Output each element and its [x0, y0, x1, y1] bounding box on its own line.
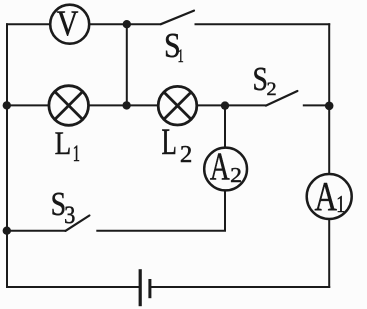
svg-text:L: L	[161, 121, 176, 162]
svg-text:1: 1	[73, 142, 80, 167]
svg-text:2: 2	[180, 141, 192, 168]
svg-text:1: 1	[336, 190, 345, 217]
svg-text:A: A	[314, 174, 336, 219]
svg-text:L: L	[55, 125, 72, 162]
svg-text:2: 2	[230, 163, 242, 186]
svg-text:A: A	[210, 146, 230, 189]
svg-text:2: 2	[267, 80, 277, 100]
svg-text:3: 3	[64, 202, 75, 229]
svg-text:1: 1	[178, 47, 184, 67]
svg-text:V: V	[57, 5, 79, 44]
